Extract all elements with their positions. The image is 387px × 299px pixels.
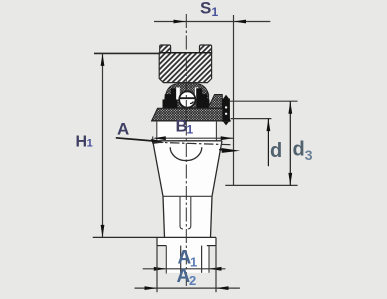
middle band side walls (156, 121, 158, 141)
shoulder line (93, 236, 216, 238)
svg-text:2: 2 (189, 273, 196, 288)
svg-text:d: d (293, 139, 305, 161)
svg-text:A: A (117, 120, 129, 139)
centerline (185, 14, 187, 286)
leader arrow A (151, 139, 164, 144)
svg-text:d: d (270, 140, 282, 162)
seal block left (163, 88, 178, 108)
housing top block (159, 45, 211, 83)
svg-text:3: 3 (305, 147, 313, 163)
svg-text:1: 1 (187, 123, 194, 137)
dimension A2 (135, 246, 240, 293)
dimension B1 (153, 136, 234, 141)
housing white body fills (153, 121, 222, 273)
tilted axis dash-dot (153, 142, 240, 153)
seal block right (196, 88, 209, 108)
flange band (152, 108, 231, 121)
dimension A1 (143, 267, 226, 274)
lower housing body (153, 141, 222, 238)
bottom lips (157, 237, 216, 245)
dimension d3 (225, 101, 297, 185)
svg-text:S: S (200, 0, 211, 18)
svg-text:1: 1 (190, 255, 197, 270)
svg-text:1: 1 (212, 5, 219, 19)
threaded hole lines (180, 197, 191, 229)
shaft seat arc (170, 147, 202, 160)
dimension d (231, 119, 272, 167)
svg-text:H: H (76, 133, 88, 150)
inner ring sleeve (208, 95, 222, 109)
bearing ball with cross (179, 91, 195, 107)
locking collar (222, 95, 230, 126)
dimension H1 (94, 53, 160, 237)
dimension S1 (154, 15, 270, 185)
foot block (166, 246, 209, 273)
svg-text:1: 1 (87, 138, 93, 150)
bearing sphere dome (165, 84, 209, 109)
